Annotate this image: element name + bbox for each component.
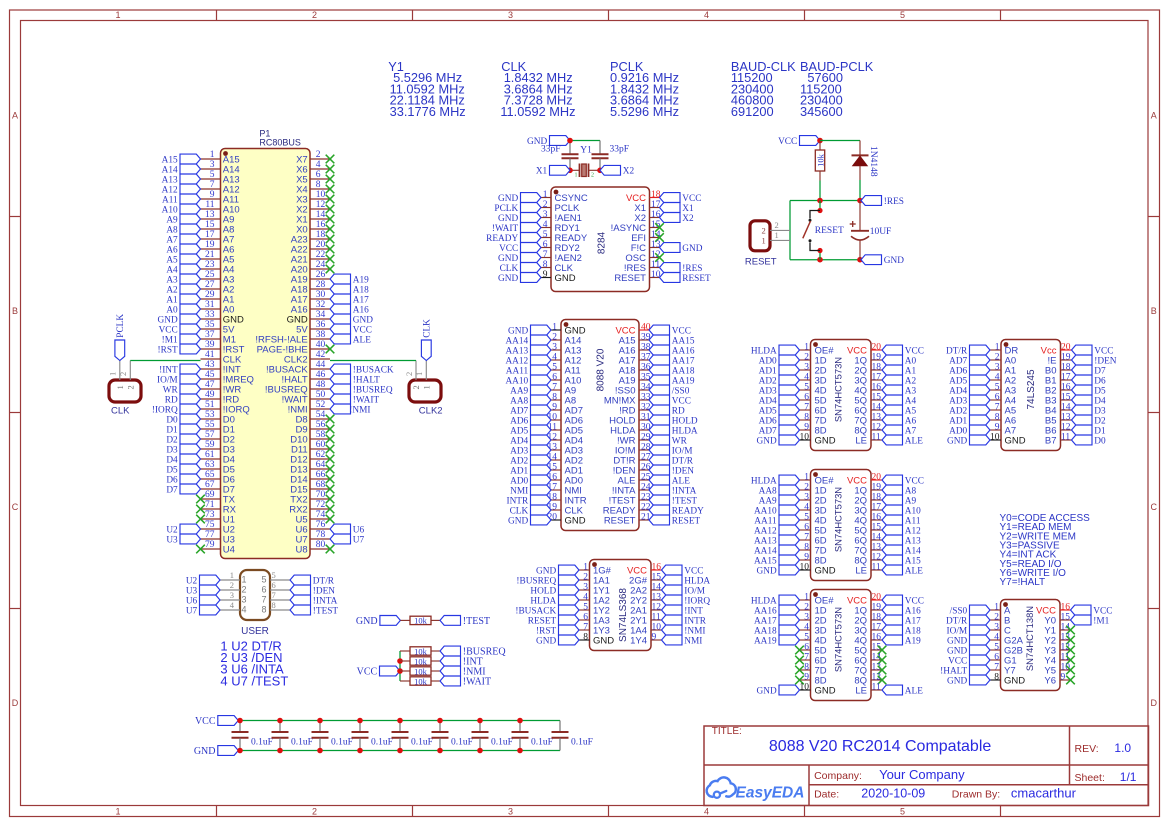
svg-text:5: 5 [804,513,809,523]
capacitor C 0.1uF #3 [312,721,353,751]
pin 8 (X4) [296,180,330,195]
svg-text:AD2: AD2 [759,376,777,386]
svg-text:4: 4 [995,373,1000,383]
pin 7 (Y7) [990,663,1016,677]
net flag AA11 [754,515,799,526]
svg-text:48: 48 [316,380,326,390]
net flag DT/R [649,455,694,466]
svg-text:GND: GND [498,274,518,284]
net flag U6 [330,524,365,535]
pin 12 (X2) [296,200,330,215]
svg-text:9: 9 [543,270,548,280]
svg-text:8: 8 [316,180,321,190]
net flag AA12 [754,525,800,536]
svg-text:!RES: !RES [884,197,904,207]
no-connect pin 4 [326,165,335,174]
svg-text:11: 11 [872,683,881,693]
no-connect pin 14 [878,656,887,665]
pin 74 (U5) [296,510,330,525]
svg-text:Drawn By:: Drawn By: [952,789,1000,801]
svg-text:A19: A19 [353,275,369,285]
connector CLK [109,380,141,402]
pin 10 (AD6) [548,413,583,427]
net flag AD1 [949,415,990,426]
svg-text:HLDA: HLDA [684,576,710,586]
svg-text:CLK: CLK [111,406,130,417]
svg-text:GND: GND [815,565,836,576]
pin 2 (B) [990,613,1010,627]
net flag D0 [1072,435,1107,446]
pin 16 (4Q) [854,513,882,527]
pin 2 (1D) [800,353,827,367]
pin 45 (!MREQ) [201,370,254,385]
svg-text:GND: GND [682,244,702,254]
svg-text:U8: U8 [296,544,308,555]
pin 1 (OE#) [800,473,835,487]
pin 69 (TX) [201,490,236,505]
net flag A10 [162,204,201,215]
svg-text:AD4: AD4 [759,396,777,406]
net flag AD4 [759,395,800,406]
net flag VCC [948,655,990,666]
svg-text:A17: A17 [905,616,921,626]
net flag D5 [1072,385,1107,396]
svg-text:AA10: AA10 [754,506,777,516]
svg-text:A: A [12,111,18,121]
capacitor C 0.1uF #9 [552,721,593,751]
pin 6 (5D) [800,393,827,407]
svg-text:!INT: !INT [684,606,703,616]
no-connect pin 10 [326,195,335,204]
pin 52 (!NMI) [288,400,330,415]
wire junction row [790,200,860,202]
net flag A13 [162,174,201,185]
svg-text:AA8: AA8 [759,486,777,496]
pin 29 (!WR) [617,433,651,447]
pin 28 (A18) [291,280,330,295]
connector P1 RC80BUS designator [259,128,301,147]
svg-text:A18: A18 [353,285,369,295]
net flag GND [757,435,800,446]
svg-text:!TEST: !TEST [313,606,339,616]
pin 3 (2D) [800,363,827,377]
svg-text:15: 15 [1061,613,1071,623]
capacitor C 0.1uF #1 [232,721,273,751]
svg-text:!NMI: !NMI [684,626,705,636]
pin 12 (8Q) [854,423,882,437]
pin 20 (VCC) [847,593,882,607]
pin 7 (A9) [551,383,576,397]
net flag GND [947,645,990,656]
svg-text:1: 1 [575,173,578,179]
pin 16 (B2) [1045,383,1072,397]
svg-text:Y6: Y6 [1044,675,1056,686]
svg-text:CLK2: CLK2 [419,406,443,417]
svg-text:16: 16 [316,220,326,230]
pin 34 (!SS0) [615,383,651,397]
svg-text:16: 16 [872,633,882,643]
svg-text:7: 7 [272,590,276,600]
svg-text:GND: GND [947,436,967,446]
net flag !HALT [940,665,990,676]
svg-text:X1: X1 [536,167,548,177]
svg-text:9: 9 [804,423,809,433]
svg-text:CLK: CLK [510,506,529,516]
no-connect pin 9 [795,676,804,685]
svg-text:16: 16 [872,513,882,523]
svg-text:!WAIT: !WAIT [492,224,519,234]
svg-text:10: 10 [800,683,810,693]
net flag D6 [166,474,200,485]
note: CLK frequency column [500,59,575,119]
svg-text:40: 40 [316,340,326,350]
svg-text:8: 8 [543,260,548,270]
svg-text:U3: U3 [186,586,198,596]
svg-text:A16: A16 [905,606,921,616]
pin 13 (7Q) [854,663,882,677]
svg-text:5: 5 [272,570,276,580]
pin 71 (RX) [201,500,237,515]
svg-text:cmacarthur: cmacarthur [1011,786,1077,801]
svg-text:DT/R: DT/R [946,616,968,626]
net flag !BUSREQ [516,575,579,586]
svg-text:AA9: AA9 [510,386,528,396]
net flag !NMI [440,666,486,677]
svg-text:A16: A16 [353,305,369,315]
svg-text:9: 9 [652,633,657,643]
svg-text:AD2: AD2 [510,456,528,466]
resistor R 10k (!WAIT) [400,676,440,686]
net flag AD3 [510,445,551,456]
pin 7 (6D) [800,533,827,547]
net flag AD3 [949,395,990,406]
IC U SN74LS368 body [590,560,652,651]
svg-text:22: 22 [316,250,326,260]
net flag A17 [882,615,921,626]
Date field [814,786,1076,801]
svg-text:AA16: AA16 [672,346,695,356]
net flag GND [508,515,551,526]
pin 5 (4D) [800,383,827,397]
no-connect pin 22 [326,255,335,264]
pin 19 (CLK) [548,503,584,517]
svg-text:39: 39 [205,340,215,350]
svg-text:Y1: Y1 [580,146,592,156]
svg-text:64: 64 [316,460,326,470]
pin 37 (M1) [201,330,237,345]
svg-text:A: A [1151,111,1157,121]
wire CLK net [130,360,200,362]
pin 28 (IO!M) [615,443,651,457]
svg-text:VCC: VCC [353,325,372,335]
pin 9 (AD7) [551,403,583,417]
svg-text:GND: GND [815,435,836,446]
svg-text:A9: A9 [905,496,917,506]
net flag X1 [536,165,570,176]
svg-text:GND: GND [757,436,777,446]
svg-text:19: 19 [872,603,882,613]
svg-text:A10: A10 [162,205,178,215]
svg-text:8: 8 [804,543,809,553]
svg-text:10k: 10k [815,153,825,167]
svg-text:VCC: VCC [905,476,924,486]
svg-text:12: 12 [872,553,882,563]
svg-text:8: 8 [995,413,1000,423]
svg-text:X2: X2 [623,167,635,177]
pin 57 (D2) [201,430,235,445]
net flag HLDA [751,595,800,606]
no-connect pin 7 [795,656,804,665]
pin 14 (EFI) [631,230,661,244]
svg-text:3: 3 [230,590,234,600]
svg-text:7: 7 [210,180,215,190]
wire CLK2 net [330,360,416,362]
no-connect pin 64 [326,465,335,474]
net flag A9 [166,214,200,225]
net flag AD6 [510,415,551,426]
svg-text:A7: A7 [166,235,178,245]
svg-text:Y7=!HALT: Y7=!HALT [1000,577,1046,588]
svg-text:RESET: RESET [815,226,844,236]
pin 8 (7D) [800,413,827,427]
net flag HOLD [530,585,579,596]
svg-text:5: 5 [261,575,266,585]
net flag A7 [166,234,200,245]
pin 20 (A22) [291,240,330,255]
pin 68 (D15) [290,480,330,495]
svg-text:33: 33 [205,310,215,320]
svg-text:AD6: AD6 [510,416,528,426]
net flag AD4 [510,435,551,446]
net flag VCC (pull-ups) [357,666,400,677]
svg-text:0.1uF: 0.1uF [331,738,353,748]
pin 1 (OE#) [800,593,835,607]
net flag U2 [186,575,220,586]
svg-text:GND: GND [498,194,518,204]
pin 13 (A9) [201,210,235,225]
connector CLK2 [409,380,441,402]
svg-text:D2: D2 [1094,416,1106,426]
pin 20 (Vcc) [1041,343,1072,357]
svg-text:AD0: AD0 [759,356,777,366]
svg-text:A18: A18 [905,626,921,636]
net flag A8 [882,485,917,496]
net flag WR [649,435,688,446]
net flag ALE [649,475,690,486]
svg-text:D0: D0 [1094,436,1106,446]
svg-text:58: 58 [316,430,326,440]
net flag AD1 [759,365,800,376]
svg-text:6: 6 [804,393,809,403]
svg-text:2: 2 [543,200,548,210]
net flag RESET [649,515,701,526]
net flag A3 [882,385,917,396]
svg-text:56: 56 [316,420,326,430]
net flag READY [649,505,704,516]
svg-text:46: 46 [316,370,326,380]
pin 3 (A1) [990,363,1016,377]
net flag !RST [158,344,201,355]
pin 13 (AD3) [548,443,583,457]
pin 77 (U3) [201,530,235,545]
svg-text:44: 44 [316,360,326,370]
pin 18 (2Q) [854,613,882,627]
svg-text:AA17: AA17 [672,356,695,366]
svg-text:4: 4 [704,807,709,817]
no-connect pin 24 [326,265,335,274]
svg-text:GND: GND [194,746,216,757]
pin 6 (5D) [800,523,827,537]
IC U SN74HCT138N body [1001,600,1061,691]
pin 19 (A6) [201,240,235,255]
svg-text:77: 77 [205,530,215,540]
svg-text:6: 6 [272,580,276,590]
svg-text:6: 6 [543,240,548,250]
pin 1 of CLK [108,361,125,390]
pin 70 (TX2) [290,490,330,505]
svg-text:3: 3 [804,493,809,503]
pin 1 (CSYNC) [541,190,588,204]
net flag AD0 [949,425,990,436]
pin 17 (X1) [634,200,660,214]
svg-text:2: 2 [775,220,779,230]
svg-text:D: D [1150,698,1157,708]
pin 7 (6D) [800,403,827,417]
svg-text:15: 15 [205,220,215,230]
svg-text:RESET: RESET [682,274,711,284]
svg-text:U2: U2 [186,576,198,586]
pin 11 (B7) [1045,433,1072,447]
svg-text:45: 45 [205,370,215,380]
svg-text:!RES: !RES [682,264,702,274]
pin 14 (Y1) [1044,623,1070,637]
pin 6 (X5) [296,170,330,185]
net flag VCC [1071,605,1113,616]
svg-text:ALE: ALE [905,566,923,576]
svg-text:1: 1 [115,385,125,389]
svg-text:73: 73 [205,510,215,520]
pin 15 (5Q) [854,393,882,407]
pin 5 (A3) [990,383,1016,397]
svg-text:9: 9 [995,423,1000,433]
net flag !M1 [1071,615,1110,626]
svg-text:B: B [12,306,18,316]
no-connect pin 14 [655,233,664,242]
net flag D2 [166,434,200,445]
no-connect pin 14 [1066,626,1075,635]
svg-text:1: 1 [115,807,120,817]
svg-text:AD3: AD3 [759,386,777,396]
svg-text:11.0592 MHz: 11.0592 MHz [500,104,575,119]
pin 76 (U6) [296,520,330,535]
svg-text:GND: GND [498,214,518,224]
svg-text:2: 2 [994,613,999,623]
svg-text:GND: GND [815,685,836,696]
pin 8 of USER [261,600,290,614]
svg-text:1: 1 [242,575,247,585]
pin 34 (GND) [287,310,330,325]
no-connect pin 20 [326,245,335,254]
wire left drop [789,201,791,260]
svg-text:72: 72 [316,500,326,510]
pin 51 (!IORQ) [201,400,250,415]
net flag INTR [506,495,551,506]
net flag D6 [1072,375,1107,386]
svg-text:11: 11 [872,563,881,573]
pin 9 (GND) [541,270,576,284]
no-connect pin 14 [326,215,335,224]
svg-text:25: 25 [205,270,215,280]
svg-text:17: 17 [205,230,215,240]
pin 12 (8Q) [854,553,882,567]
pin 4 (3D) [800,373,827,387]
svg-text:14: 14 [872,403,882,413]
svg-text:D4: D4 [166,455,178,465]
note: BAUD-CLK column [731,59,796,119]
svg-text:3: 3 [543,210,548,220]
svg-text:2: 2 [995,353,1000,363]
svg-text:65: 65 [205,470,215,480]
svg-text:36: 36 [316,320,326,330]
capacitor C left 33pF [541,141,579,171]
pin 44 (!BUSACK) [266,360,330,375]
svg-text:VCC: VCC [948,656,967,666]
net flag AA10 [505,375,551,386]
svg-text:8: 8 [261,605,266,615]
pin 26 (A19) [291,270,330,285]
pin 3 (1Y1) [579,583,610,597]
svg-text:15: 15 [1061,393,1071,403]
svg-text:0.1uF: 0.1uF [451,738,473,748]
connector RESET [750,221,770,251]
pin 3 (A14) [201,160,240,175]
svg-text:GND: GND [356,616,378,627]
pin 17 (NMI) [548,483,582,497]
pin 4 (X6) [296,160,330,175]
svg-text:A15: A15 [162,155,178,165]
pin 1 (A15) [201,150,240,165]
svg-text:2: 2 [230,580,234,590]
svg-text:8284: 8284 [597,231,608,254]
net flag A0 [882,355,917,366]
pin 5 (4D) [800,633,827,647]
net flag A10 [882,505,921,516]
pin 39 (!RST) [201,340,245,355]
svg-text:HLDA: HLDA [751,476,777,486]
svg-text:17: 17 [872,373,882,383]
pin 3 (!AEN1) [541,210,582,224]
net flag D4 [1072,395,1107,406]
net flag AD6 [759,415,800,426]
svg-text:GND: GND [593,635,614,646]
svg-text:D3: D3 [1094,406,1106,416]
pin 31 (HOLD) [609,413,651,427]
net flag X1 [660,203,695,214]
svg-text:AD1: AD1 [510,466,528,476]
svg-text:6: 6 [804,643,809,653]
svg-text:HLDA: HLDA [751,346,777,356]
svg-text:B7: B7 [1045,435,1057,446]
net flag AA19 [649,375,695,386]
svg-text:5: 5 [804,383,809,393]
net flag ALE [882,435,923,446]
svg-text:80: 80 [316,540,326,550]
wire resistor to junction [819,181,821,201]
svg-text:41: 41 [205,350,215,360]
net flag A14 [882,545,921,556]
svg-text:16: 16 [652,563,662,573]
net flag A11 [882,515,921,526]
